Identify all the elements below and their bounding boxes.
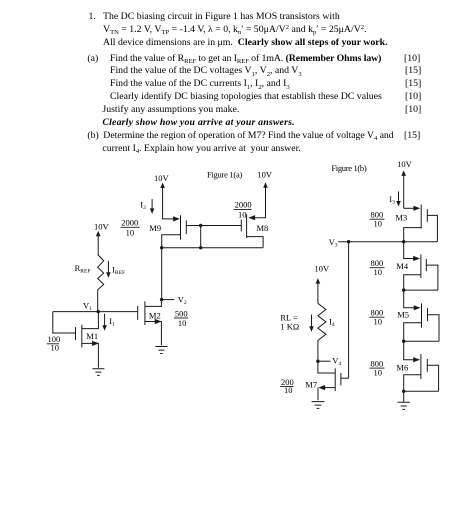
svg-text:I3: I3 — [389, 194, 395, 206]
svg-text:10: 10 — [238, 210, 247, 220]
svg-text:10V: 10V — [257, 169, 273, 179]
svg-text:M3: M3 — [395, 212, 407, 222]
svg-text:V4: V4 — [332, 355, 341, 367]
svg-text:M9: M9 — [149, 223, 161, 233]
svg-text:RREF: RREF — [75, 263, 91, 275]
svg-text:I2: I2 — [140, 200, 146, 212]
svg-text:10V: 10V — [315, 264, 331, 274]
svg-text:M1: M1 — [86, 331, 98, 341]
svg-text:500: 500 — [175, 308, 188, 318]
svg-text:I4: I4 — [329, 317, 335, 329]
svg-text:M8: M8 — [257, 223, 269, 233]
svg-text:10V: 10V — [154, 173, 170, 183]
svg-text:V1: V1 — [83, 300, 92, 312]
svg-text:Figure 1(a): Figure 1(a) — [207, 170, 242, 180]
svg-text:10: 10 — [126, 227, 135, 237]
svg-text:M4: M4 — [396, 261, 409, 271]
svg-text:M5: M5 — [397, 309, 409, 319]
svg-text:10: 10 — [178, 318, 187, 328]
svg-text:2000: 2000 — [235, 200, 252, 210]
svg-text:IREF: IREF — [112, 265, 125, 277]
svg-text:10: 10 — [374, 368, 383, 378]
svg-text:10V: 10V — [94, 221, 110, 231]
svg-text:V2: V2 — [178, 294, 187, 306]
svg-text:10: 10 — [374, 267, 383, 277]
svg-text:V3: V3 — [329, 237, 338, 249]
svg-text:Figure 1(b): Figure 1(b) — [331, 163, 366, 173]
svg-text:I1: I1 — [109, 316, 115, 328]
svg-text:10V: 10V — [397, 159, 413, 169]
svg-text:10: 10 — [374, 219, 383, 229]
svg-text:M2: M2 — [149, 310, 161, 320]
svg-text:2000: 2000 — [121, 217, 138, 227]
svg-text:M7: M7 — [305, 380, 317, 390]
svg-text:1 KΩ: 1 KΩ — [280, 322, 299, 332]
svg-text:M6: M6 — [396, 362, 408, 372]
svg-text:10: 10 — [374, 316, 383, 326]
